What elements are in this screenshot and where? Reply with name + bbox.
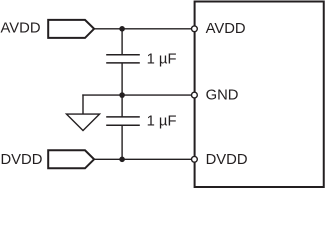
wire GND branch down to ground: [82, 94, 84, 114]
svg-text:GND: GND: [206, 88, 239, 104]
svg-text:DVDD: DVDD: [206, 152, 248, 168]
pin GND: [192, 92, 198, 98]
pin DVDD: [192, 156, 198, 162]
pin AVDD: [192, 26, 198, 32]
svg-text:1 µF: 1 µF: [147, 52, 177, 68]
terminal DVDD: [48, 150, 94, 168]
capacitor C1: [106, 55, 140, 63]
wire AVDD horizontal: [94, 28, 192, 30]
svg-text:1 µF: 1 µF: [147, 113, 177, 129]
ground: [67, 114, 100, 130]
junction DVDD node: [119, 157, 125, 163]
terminal AVDD: [48, 20, 94, 38]
svg-text:AVDD: AVDD: [1, 20, 41, 36]
IC U1 body: [195, 2, 324, 188]
wire GND horizontal: [82, 94, 192, 96]
junction AVDD node: [119, 26, 125, 32]
wire GND node to C2: [121, 95, 123, 117]
wire C2 to DVDD node: [121, 125, 123, 159]
wire DVDD horizontal: [94, 158, 192, 160]
wire AVDD rail down to C1: [121, 29, 123, 55]
wire C1 to GND node: [121, 63, 123, 95]
svg-text:AVDD: AVDD: [206, 21, 246, 37]
svg-text:DVDD: DVDD: [1, 152, 43, 168]
capacitor C2: [106, 117, 140, 125]
junction GND node: [119, 92, 125, 98]
